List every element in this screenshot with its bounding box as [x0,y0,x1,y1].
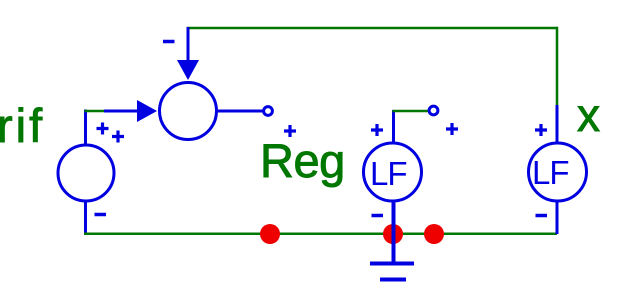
wire bottom rail [84,232,557,235]
label plus output [284,125,296,137]
wire input green segment [85,110,105,113]
wire feedback top horizontal [187,27,557,30]
label plus rif 2 [112,131,124,143]
wire rif source bottom stub [84,202,87,234]
wire feedback left vertical blue [187,27,190,62]
wire LF2 bottom stub [556,202,559,234]
label plus LF1 left [371,124,383,136]
label plus rif 1 [97,123,109,135]
svg-text:LF: LF [370,155,407,192]
wire LF1 bottom to ground [392,203,396,264]
label minus feedback [163,40,175,44]
node junction 1 [260,224,280,244]
svg-text:x: x [577,89,600,141]
svg-text:rif: rif [0,99,45,152]
wire rif source top vertical [84,110,87,145]
label minus rif [95,213,107,217]
source LF2 [529,143,587,201]
label minus LF2 [536,214,548,218]
wire input blue segment [104,110,139,113]
source rif V1 [58,145,114,201]
label plus LF1 right [446,123,458,135]
wire summer output [216,110,263,113]
arrowhead into summer top [177,60,199,80]
op-amp summing junction U1 [160,83,217,140]
label minus LF1 [372,214,384,218]
wire LF1 top green to terminal [393,110,429,113]
source LF1 [364,143,422,201]
wire right branch vertical blue [556,105,559,143]
arrowhead into summer left [137,100,157,122]
wire feedback right vertical green [556,27,559,105]
svg-text:LF: LF [532,154,569,191]
label plus LF2 [535,124,547,136]
node junction 2 [383,224,403,244]
wire LF1 top vertical [392,110,395,143]
terminal open circle output [264,107,273,116]
terminal open circle LF1 [429,106,438,115]
ground [370,264,414,280]
node junction 3 [424,224,444,244]
svg-text:Reg: Reg [260,134,345,187]
